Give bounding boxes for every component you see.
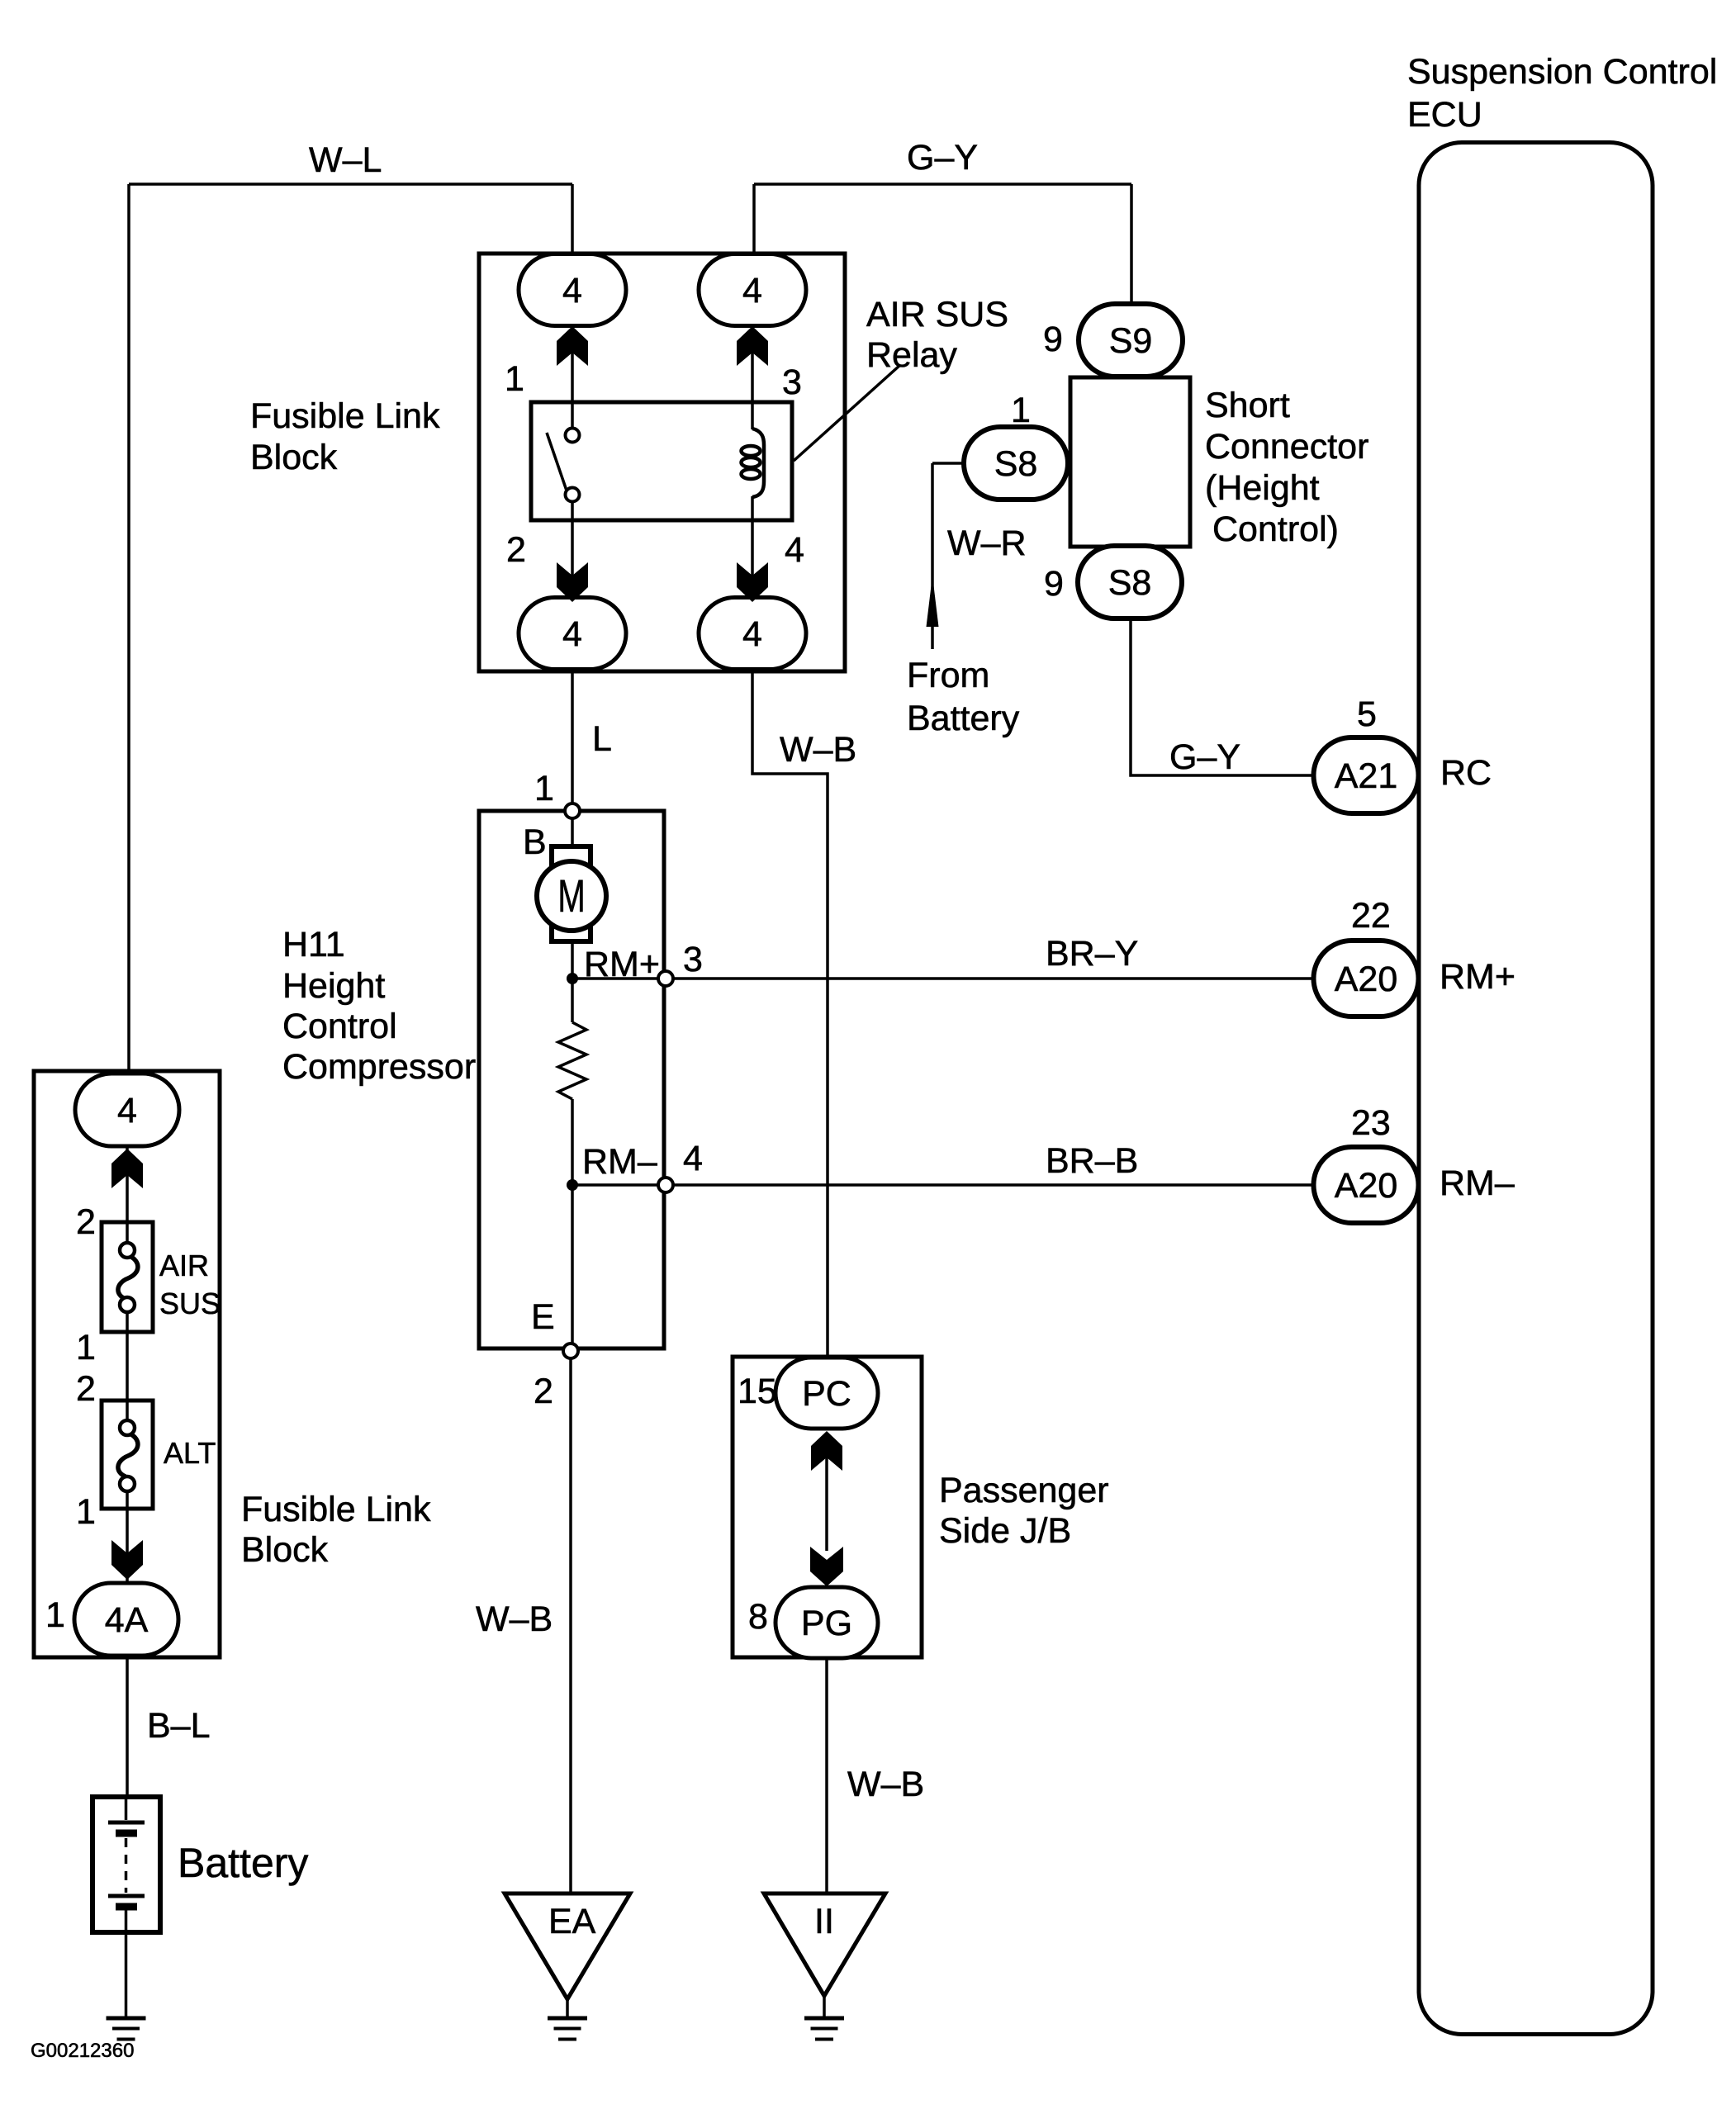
- svg-text:Control: Control: [282, 1007, 397, 1046]
- svg-text:W–B: W–B: [780, 730, 856, 770]
- svg-text:3: 3: [782, 363, 802, 402]
- svg-text:G00212360: G00212360: [31, 2040, 134, 2062]
- svg-text:W–B: W–B: [847, 1765, 924, 1804]
- svg-text:4: 4: [742, 271, 762, 310]
- svg-text:A20: A20: [1335, 1166, 1398, 1206]
- svg-text:A20: A20: [1335, 960, 1398, 999]
- svg-text:8: 8: [748, 1597, 768, 1637]
- svg-text:EA: EA: [548, 1902, 596, 1941]
- svg-text:Battery: Battery: [907, 699, 1020, 738]
- svg-text:RC: RC: [1440, 753, 1492, 793]
- svg-text:3: 3: [683, 940, 703, 979]
- svg-text:ALT: ALT: [164, 1436, 216, 1470]
- svg-text:4: 4: [742, 614, 762, 654]
- svg-text:Connector: Connector: [1205, 427, 1368, 467]
- svg-text:4: 4: [562, 614, 582, 654]
- svg-text:Passenger: Passenger: [939, 1471, 1109, 1510]
- svg-text:BR–Y: BR–Y: [1046, 934, 1138, 974]
- svg-text:Battery: Battery: [178, 1840, 308, 1886]
- svg-text:AIR: AIR: [159, 1249, 209, 1282]
- svg-text:From: From: [907, 656, 989, 695]
- svg-text:PG: PG: [801, 1604, 852, 1643]
- svg-text:W–R: W–R: [947, 524, 1027, 563]
- svg-text:9: 9: [1043, 320, 1063, 359]
- svg-text:B: B: [523, 822, 547, 862]
- svg-text:S8: S8: [994, 444, 1038, 484]
- svg-text:5: 5: [1357, 694, 1377, 734]
- svg-text:Control): Control): [1212, 509, 1339, 549]
- svg-text:4: 4: [117, 1091, 137, 1130]
- svg-text:1: 1: [76, 1328, 96, 1367]
- svg-text:L: L: [592, 719, 612, 759]
- svg-text:S8: S8: [1108, 563, 1152, 603]
- svg-text:PC: PC: [802, 1374, 851, 1414]
- svg-text:Relay: Relay: [866, 335, 957, 375]
- svg-text:Compressor: Compressor: [282, 1047, 476, 1087]
- svg-text:4: 4: [683, 1139, 703, 1178]
- svg-text:Block: Block: [250, 438, 338, 477]
- svg-text:M: M: [557, 871, 586, 922]
- svg-text:2: 2: [76, 1369, 96, 1409]
- svg-text:Suspension Control: Suspension Control: [1407, 52, 1717, 92]
- svg-text:4A: 4A: [105, 1600, 149, 1640]
- svg-text:II: II: [814, 1902, 834, 1941]
- svg-text:2: 2: [506, 530, 526, 570]
- svg-text:1: 1: [45, 1595, 65, 1635]
- svg-text:Fusible Link: Fusible Link: [250, 396, 440, 436]
- svg-text:22: 22: [1351, 896, 1391, 936]
- svg-text:E: E: [531, 1297, 555, 1337]
- svg-text:H11: H11: [282, 925, 345, 964]
- svg-text:B–L: B–L: [147, 1706, 211, 1746]
- svg-text:BR–B: BR–B: [1046, 1141, 1138, 1181]
- svg-text:S9: S9: [1109, 321, 1153, 361]
- svg-text:RM+: RM+: [1440, 957, 1515, 997]
- svg-text:ECU: ECU: [1407, 95, 1482, 135]
- svg-text:Height: Height: [282, 966, 385, 1006]
- svg-text:4: 4: [562, 271, 582, 310]
- svg-text:1: 1: [534, 769, 554, 808]
- svg-text:(Height: (Height: [1205, 468, 1320, 508]
- svg-text:W–B: W–B: [476, 1600, 553, 1639]
- svg-text:1: 1: [505, 359, 524, 399]
- svg-text:W–L: W–L: [309, 140, 382, 180]
- svg-text:RM+: RM+: [584, 945, 660, 984]
- svg-text:RM–: RM–: [582, 1142, 657, 1182]
- svg-text:4: 4: [785, 530, 804, 570]
- svg-text:RM–: RM–: [1440, 1164, 1515, 1203]
- svg-text:23: 23: [1351, 1103, 1391, 1143]
- svg-text:1: 1: [76, 1492, 96, 1532]
- svg-text:G–Y: G–Y: [907, 138, 978, 178]
- svg-text:2: 2: [76, 1202, 96, 1242]
- svg-text:9: 9: [1044, 564, 1064, 604]
- svg-text:15: 15: [738, 1372, 777, 1411]
- svg-text:2: 2: [534, 1372, 553, 1411]
- svg-text:SUS: SUS: [159, 1287, 221, 1320]
- svg-text:Block: Block: [241, 1530, 329, 1570]
- svg-text:Fusible Link: Fusible Link: [241, 1490, 431, 1529]
- svg-text:A21: A21: [1335, 756, 1398, 796]
- svg-text:AIR SUS: AIR SUS: [866, 295, 1008, 334]
- svg-text:Short: Short: [1205, 386, 1290, 425]
- svg-text:G–Y: G–Y: [1169, 737, 1240, 777]
- svg-text:1: 1: [1011, 391, 1031, 430]
- svg-text:Side J/B: Side J/B: [939, 1511, 1071, 1551]
